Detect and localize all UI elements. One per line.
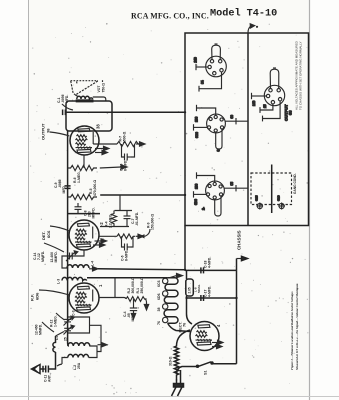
- resistor R-8: [117, 234, 135, 239]
- svg-text:470,000-Ω: 470,000-Ω: [93, 180, 97, 196]
- coil L-3: [62, 277, 87, 280]
- svg-text:4-MFD.: 4-MFD.: [208, 257, 212, 268]
- resistor R-4 2.2 MEG (vertical): [111, 211, 116, 226]
- heater chain serpentine with pilot circles: [164, 278, 178, 323]
- svg-text:30: 30: [230, 115, 234, 119]
- gang condenser dashed box: [251, 173, 292, 205]
- plate wire det to R-8: [99, 235, 117, 237]
- svg-text:8-MFD.: 8-MFD.: [125, 250, 129, 261]
- page edge right: [309, 0, 311, 400]
- output tube V3 38: [70, 126, 99, 155]
- svg-text:250,000-Ω: 250,000-Ω: [140, 277, 144, 293]
- trimmer C-2 on bus: [64, 325, 75, 334]
- cathode chassis arrows of V3: [95, 146, 109, 150]
- svg-text:S1: S1: [204, 370, 208, 375]
- arrow mark at panel top corner: [248, 24, 258, 33]
- left bus continues down to antenna coil: [67, 222, 69, 343]
- svg-text:VOT: VOT: [97, 85, 101, 93]
- choke L-8 (2.05): [186, 270, 194, 298]
- coil L-1 (upper row): [68, 343, 90, 346]
- tube socket A (RECT 84): [194, 44, 227, 92]
- capacitor C-8: [68, 203, 100, 214]
- wire speaker coil to box right side: [93, 97, 106, 102]
- capacitor C-6 below R-8: [122, 236, 134, 250]
- svg-text:38: 38: [96, 124, 101, 129]
- svg-text:8-MFD.: 8-MFD.: [124, 160, 128, 171]
- wire tube plate to R-7: [93, 143, 117, 145]
- junction dots: [184, 111, 238, 299]
- svg-text:1-MEG.: 1-MEG.: [54, 315, 58, 327]
- coil L-2 (lower row): [68, 354, 89, 357]
- svg-text:CHASSIS: CHASSIS: [237, 230, 242, 250]
- svg-text:.01-MFD.: .01-MFD.: [135, 212, 139, 226]
- svg-text:100: 100: [195, 116, 199, 122]
- chassis arrow and wire right of L-4: [89, 267, 185, 271]
- capacitor C-10 hanging below R-7: [122, 144, 135, 161]
- svg-text:4-MFD.: 4-MFD.: [208, 286, 212, 297]
- svg-text:100: 100: [195, 183, 199, 189]
- capacitor C-4 below volume control: [130, 299, 137, 314]
- switch S1: [177, 362, 237, 374]
- arrows at rectifier right: [212, 340, 223, 344]
- svg-text:95: 95: [230, 182, 234, 186]
- heater serpentine bottom into tube top: [168, 323, 190, 331]
- svg-text:Figure 2—Trimmer Locations and: Figure 2—Trimmer Locations and Radiotron…: [290, 291, 294, 370]
- rf grid trimmer C-3 on bus: [64, 316, 75, 325]
- svg-text:MMFD.: MMFD.: [54, 251, 58, 262]
- svg-text:25: 25: [64, 337, 68, 341]
- svg-text:2-: 2-: [202, 207, 206, 210]
- resistor R-7 1500 ohm: [117, 141, 140, 146]
- svg-text:750-Ω: 750-Ω: [101, 83, 105, 93]
- capacitor C-17 on bottom line: [201, 295, 204, 301]
- wiper wire from y=277.7 down: [114, 278, 116, 298]
- svg-text:GANG COND.: GANG COND.: [293, 173, 297, 194]
- trimmer C-15: [255, 195, 264, 209]
- svg-text:RCA MFG. CO., INC.: RCA MFG. CO., INC.: [131, 12, 209, 21]
- capacitor C-9 on left bus: [65, 186, 71, 189]
- svg-text:MMFD.: MMFD.: [41, 251, 45, 262]
- svg-text:MFD.: MFD.: [65, 95, 69, 103]
- svg-text:6C6: 6C6: [46, 230, 51, 238]
- svg-text:1-MEG.: 1-MEG.: [77, 171, 81, 183]
- svg-text:Model T4-10: Model T4-10: [210, 8, 277, 20]
- left bus from box down: [67, 131, 69, 222]
- cathode chassis arrows of V2: [95, 239, 107, 243]
- tube socket C (RF 6D6): [194, 172, 249, 216]
- power plug: [172, 370, 184, 396]
- long wire y=195 to B+ bus: [100, 194, 185, 196]
- rectifier tube V4: [190, 322, 219, 351]
- wire from L-3 right to volume control: [87, 277, 168, 279]
- svg-text:76: 76: [183, 323, 187, 327]
- svg-text:ANT.: ANT.: [48, 374, 52, 382]
- voice coil on transformer top: [77, 96, 93, 99]
- output transformer T2 box: [66, 101, 112, 131]
- antenna symbol: [32, 365, 45, 374]
- svg-text:TO CHASSIS WITH SET OPERATING: TO CHASSIS WITH SET OPERATING NORMALLY: [299, 41, 303, 110]
- svg-text:140: 140: [252, 100, 256, 106]
- svg-text:Measured at 115 volts a-c.—No: Measured at 115 volts a-c.—No Signal—Vol…: [295, 283, 299, 371]
- trimmer C-16: [277, 195, 285, 209]
- svg-text:25A: 25A: [77, 362, 81, 369]
- wire from bottom line down to rectifier: [187, 298, 193, 324]
- svg-text:6C6: 6C6: [157, 280, 161, 287]
- ballast resistor 310 ohm: [174, 330, 190, 380]
- svg-text:38: 38: [46, 128, 51, 133]
- svg-text:310-Ω: 310-Ω: [168, 356, 172, 366]
- svg-text:L-4: L-4: [91, 261, 95, 266]
- plate bus wire y=112.3 from C-1 to B+ bus: [65, 111, 185, 113]
- detector tube V2 6C6: [69, 220, 99, 250]
- svg-text:6C6: 6C6: [195, 132, 199, 138]
- svg-text:S: S: [217, 149, 221, 151]
- svg-text:84: 84: [201, 80, 205, 84]
- svg-text:1500-Ω: 1500-Ω: [123, 131, 127, 143]
- rf tube V1 6D6: [69, 283, 99, 313]
- resistor R-6 1 MEG: [68, 165, 97, 170]
- panel frame: [185, 33, 309, 226]
- series cap C-11: [46, 366, 49, 373]
- resistor R-5 470000: [68, 194, 97, 199]
- grid wire down from tube to R-6: [83, 155, 85, 169]
- filter top line y=270.4: [185, 269, 237, 271]
- svg-text:240: 240: [194, 57, 198, 63]
- svg-text:2.05: 2.05: [188, 287, 192, 293]
- B+ bus down right: [184, 226, 186, 271]
- antenna lead up: [48, 352, 55, 369]
- speaker LS1 cone (dashed V): [71, 81, 99, 97]
- capacitor C-1 on box left edge: [63, 110, 66, 116]
- volume control R-2 zigzag horizontal: [126, 297, 147, 302]
- dark core bar under coil: [76, 99, 94, 102]
- page edge left: [28, 0, 30, 400]
- svg-text:2.2-MEG.: 2.2-MEG.: [109, 213, 113, 228]
- svg-text:38: 38: [288, 110, 293, 115]
- svg-text:L1: L1: [55, 336, 59, 340]
- C-14 trimmer under det tube: [62, 250, 84, 268]
- svg-text:300,000-Ω: 300,000-Ω: [131, 277, 135, 293]
- plate wire rf right: [99, 298, 126, 299]
- leader from C-1 label to cap: [62, 104, 73, 110]
- svg-text:6D6: 6D6: [157, 293, 161, 300]
- svg-text:C15: C15: [255, 195, 259, 201]
- right vertical down to switch: [236, 270, 238, 363]
- solid divider through box: [271, 165, 273, 214]
- wire bracket right of coils: [89, 343, 107, 358]
- svg-text:6D6: 6D6: [35, 292, 40, 300]
- filter bottom line y=298: [187, 297, 237, 299]
- svg-text:50MA.: 50MA.: [197, 284, 201, 293]
- coil L-4: [67, 265, 89, 268]
- capacitor C-7: [124, 211, 131, 226]
- svg-text:L-3: L-3: [57, 279, 61, 284]
- svg-text:C-3: C-3: [72, 310, 76, 316]
- svg-text:38: 38: [157, 308, 161, 312]
- svg-text:76: 76: [157, 321, 161, 325]
- svg-text:150,000-Ω: 150,000-Ω: [151, 214, 155, 230]
- svg-text:MFD.: MFD.: [62, 185, 66, 193]
- wires linking R-4/C-7 tops to line y=212: [100, 195, 132, 227]
- svg-text:C16: C16: [277, 195, 281, 201]
- svg-text:6D6: 6D6: [194, 199, 198, 205]
- svg-text:25: 25: [263, 104, 267, 108]
- leader to tube: [50, 226, 70, 231]
- tube socket D (OUTPUT 38): [252, 68, 293, 121]
- chassis arrow after R-7: [136, 142, 145, 146]
- svg-text:MMFD.: MMFD.: [92, 207, 96, 218]
- chassis stub and arrow: [237, 256, 248, 270]
- tube socket B (DET 6C6): [194, 105, 249, 152]
- leader from label to tube: [50, 132, 70, 136]
- chassis arrow at heater top: [170, 273, 183, 277]
- wire loop for C-3/C-2: [68, 317, 101, 345]
- svg-text:MMFD.: MMFD.: [39, 324, 43, 335]
- page edge bottom: [0, 396, 339, 398]
- capacitor C-18 on top line: [201, 267, 204, 273]
